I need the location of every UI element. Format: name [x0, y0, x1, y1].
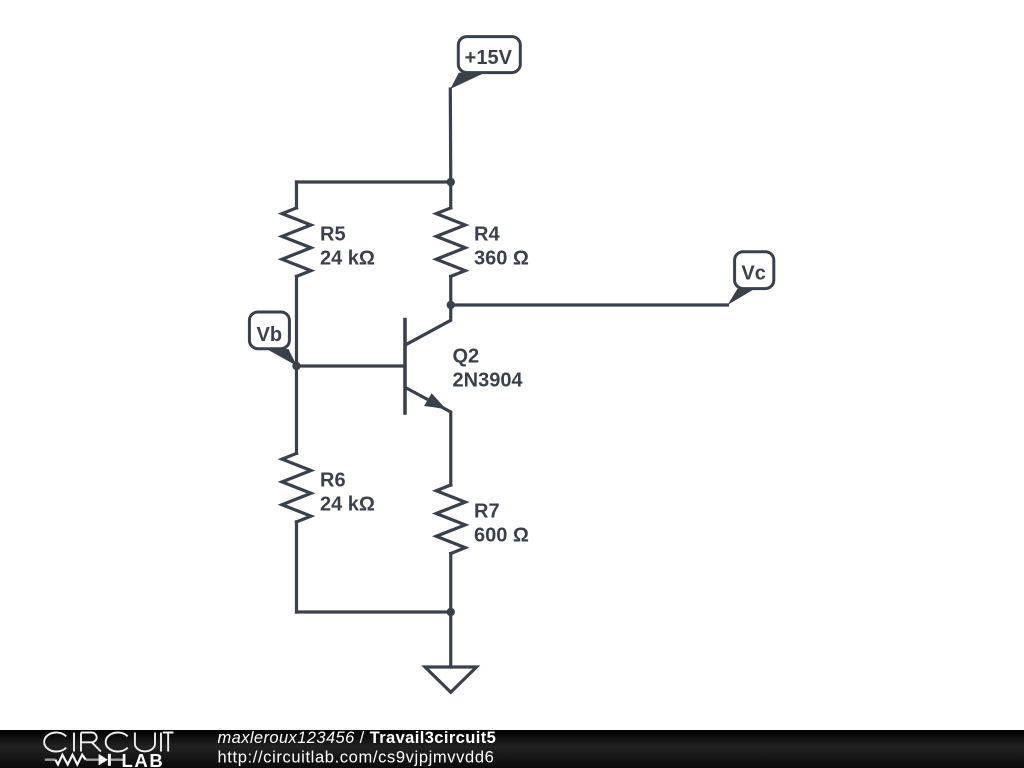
resistor R5 [282, 208, 311, 277]
svg-text:360 Ω: 360 Ω [474, 247, 529, 269]
label R5 value [320, 224, 375, 270]
svg-text:R6: R6 [320, 470, 346, 492]
label R4 value [474, 224, 529, 270]
logo squiggle [45, 754, 124, 766]
svg-text:Q2: Q2 [453, 346, 480, 368]
svg-text:Vb: Vb [257, 324, 283, 346]
transistor Q2 emitter [406, 388, 451, 485]
net flag tail +15V [450, 73, 485, 89]
logo CIRCUIT wordmark [44, 732, 173, 751]
label R7 value [474, 501, 529, 547]
node Vb [249, 312, 289, 349]
svg-text:Vc: Vc [741, 263, 765, 285]
svg-text:+15V: +15V [465, 47, 513, 69]
logo LAB [122, 750, 165, 768]
svg-text:R7: R7 [474, 501, 500, 523]
svg-text:LAB: LAB [122, 750, 165, 768]
node junction [447, 178, 455, 186]
node +15V [458, 37, 520, 73]
node junction [447, 301, 455, 309]
wire [295, 366, 298, 453]
wire [297, 180, 451, 183]
wire [297, 610, 451, 613]
wire [449, 276, 452, 305]
svg-text:2N3904: 2N3904 [453, 370, 524, 392]
svg-text:http://circuitlab.com/cs9vjpjm: http://circuitlab.com/cs9vjpjmvvdd6 [218, 749, 495, 767]
svg-text:maxleroux123456 / Travail3circ: maxleroux123456 / Travail3circuit5 [218, 729, 497, 747]
transistor Q2 base bar [403, 320, 407, 414]
wire [451, 303, 728, 306]
node junction [447, 608, 455, 616]
resistor R4 [436, 208, 465, 277]
label Q2 value [453, 346, 524, 392]
node junction [292, 362, 300, 370]
svg-text:24 kΩ: 24 kΩ [320, 493, 375, 515]
svg-text:24 kΩ: 24 kΩ [320, 247, 375, 269]
wire [449, 554, 452, 613]
footer title [218, 729, 497, 766]
resistor R6 [282, 453, 311, 522]
svg-text:600 Ω: 600 Ω [474, 524, 529, 546]
logo diode [99, 754, 108, 766]
wire [449, 612, 452, 667]
wire [295, 522, 298, 612]
wire [449, 89, 453, 182]
wire [295, 182, 298, 208]
resistor R7 [436, 485, 465, 554]
wire [295, 276, 298, 366]
label R6 value [320, 470, 375, 516]
net flag tail Vb [267, 349, 297, 366]
transistor Q2 collector [406, 305, 451, 345]
node Vc [735, 252, 774, 289]
wire [297, 364, 406, 367]
svg-text:R5: R5 [320, 224, 346, 246]
net flag tail Vc [728, 289, 756, 305]
footer bar [0, 730, 1024, 768]
svg-text:R4: R4 [474, 224, 500, 246]
transistor Q2 emitter arrowhead [424, 393, 446, 409]
wire [449, 182, 452, 208]
ground [425, 667, 477, 692]
